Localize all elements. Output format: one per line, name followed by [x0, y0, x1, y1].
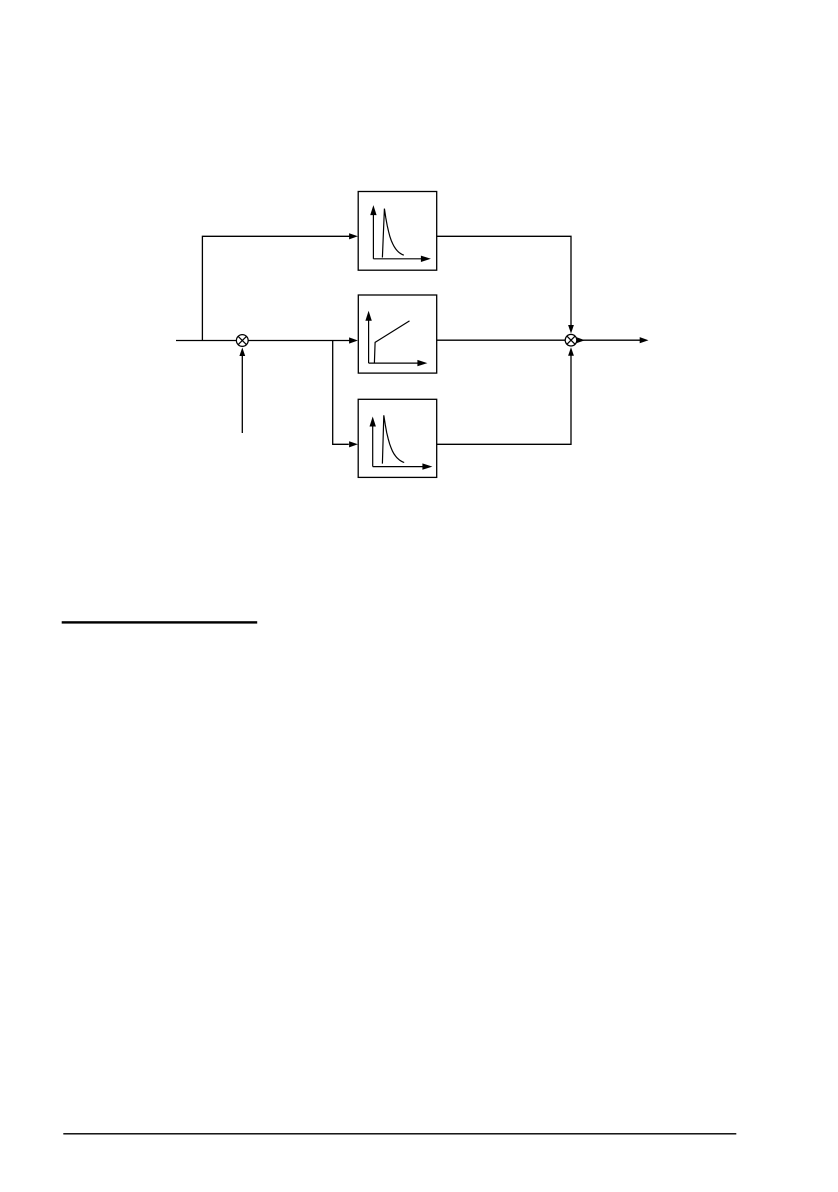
block F2 (middle, ramp graph)	[358, 295, 436, 373]
block F3 (bottom, impulse-response graph)	[358, 399, 437, 477]
wire arrowhead down into S2	[568, 325, 574, 334]
wire arrow into top block	[349, 233, 358, 239]
heading underline rule	[62, 621, 258, 623]
summing junction S2 (right, circle with X)	[565, 334, 577, 346]
wire S1 to middle block	[248, 340, 349, 342]
wire arrow into middle block	[349, 337, 358, 343]
wire input line	[176, 340, 237, 342]
F1 decay curve	[382, 209, 403, 258]
wire bottom block output to S2	[437, 355, 571, 445]
wire arrowhead up into S1	[239, 348, 245, 357]
F2 x-axis	[369, 360, 428, 366]
wire arrow into bottom block	[349, 441, 358, 447]
F3 x-axis	[373, 463, 433, 469]
F3 y-axis	[370, 417, 376, 467]
F1 x-axis	[373, 256, 431, 262]
footer rule	[63, 1133, 736, 1134]
wire middle block output to S2	[437, 339, 566, 341]
F2 y-axis	[365, 311, 371, 363]
F1 y-axis	[370, 205, 376, 259]
F3 decay curve	[382, 415, 404, 463]
node branch junction to bottom path	[333, 341, 349, 445]
F2 ramp curve	[374, 321, 409, 363]
wire output arrowhead	[640, 337, 649, 343]
node branch junction to top path	[202, 236, 349, 340]
wire vertical input below S1	[241, 355, 243, 434]
summing junction S1 (left, circle with X)	[236, 335, 248, 347]
wire arrowhead up into S2	[568, 347, 574, 356]
wire top block output to S2	[437, 236, 571, 326]
wire arrowhead at S2 right edge	[577, 337, 585, 343]
wire output line	[577, 339, 640, 341]
block F1 (top, impulse-response graph)	[358, 192, 437, 271]
